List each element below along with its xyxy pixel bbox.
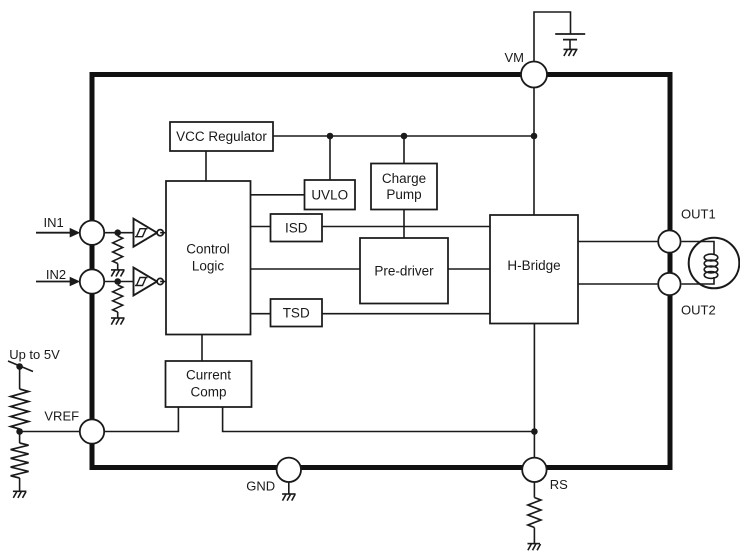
node label VM bbox=[505, 50, 525, 65]
svg-text:OUT2: OUT2 bbox=[681, 303, 716, 318]
wire buffer2 to Control Logic bbox=[160, 281, 166, 283]
ground IN2 pull-down bbox=[111, 318, 125, 325]
svg-text:Control: Control bbox=[186, 241, 230, 256]
block H-Bridge bbox=[490, 215, 578, 324]
motor load bbox=[689, 238, 740, 289]
wire Control Logic to Pre-driver bbox=[251, 268, 361, 270]
junction IN2 node bbox=[114, 278, 121, 285]
wire Current Comp to VREF pin bbox=[104, 407, 178, 432]
pin GND bbox=[277, 458, 301, 482]
svg-text:Pump: Pump bbox=[386, 187, 421, 202]
wire OUT2 to motor bbox=[682, 277, 714, 284]
wire TSD to H-Bridge bbox=[322, 313, 490, 315]
wire GND pin to ground bbox=[288, 482, 290, 494]
svg-text:VCC Regulator: VCC Regulator bbox=[176, 129, 267, 144]
wire VCC bus junction to UVLO bbox=[329, 136, 331, 181]
node label Up to 5V bbox=[9, 347, 60, 362]
wire sense resistor to ground bbox=[533, 528, 535, 544]
wire Current Comp to RS net bbox=[223, 407, 535, 432]
ground divider bbox=[13, 491, 27, 498]
junction VREF tap bbox=[16, 428, 23, 435]
junction RS net bbox=[531, 428, 538, 435]
svg-text:Charge: Charge bbox=[382, 171, 426, 186]
wire H-Bridge down to RS pin bbox=[533, 324, 535, 459]
pin VM bbox=[521, 62, 547, 88]
wire VCC bus junction to Charge Pump bbox=[403, 136, 405, 164]
wire VCC bus from VCC Regulator to VM line bbox=[273, 135, 534, 137]
wire H-Bridge to OUT1 bbox=[578, 241, 657, 243]
schmitt buffer IN2 bbox=[134, 268, 164, 296]
ground RS sense bbox=[528, 544, 541, 551]
pin RS bbox=[522, 458, 546, 482]
wire IN1 pin to buffer bbox=[104, 232, 133, 234]
resistor IN2 pull-down bbox=[113, 285, 123, 318]
junction VCC-ChargePump bbox=[401, 133, 408, 140]
wire IN2 pin to buffer bbox=[104, 281, 133, 283]
wire VM line down to H-Bridge bbox=[533, 87, 535, 215]
pin IN2 bbox=[80, 269, 104, 293]
svg-text:Comp: Comp bbox=[190, 385, 226, 400]
svg-text:UVLO: UVLO bbox=[311, 188, 348, 203]
junction VCC-UVLO bbox=[327, 133, 334, 140]
pin OUT1 bbox=[658, 230, 680, 252]
wire divider tap to VREF pin bbox=[20, 431, 80, 433]
junction VCC-VM line bbox=[531, 133, 538, 140]
ground VM bypass bbox=[564, 49, 578, 56]
svg-text:IN1: IN1 bbox=[44, 215, 64, 230]
block VCC Regulator bbox=[170, 122, 273, 151]
wire VM pin to bypass capacitor bbox=[534, 12, 571, 62]
wire buffer1 to Control Logic bbox=[160, 232, 166, 234]
node label IN2 bbox=[46, 267, 66, 282]
pin IN1 bbox=[80, 221, 104, 245]
pin VREF bbox=[80, 419, 104, 443]
block Pre-driver bbox=[360, 238, 448, 304]
junction IN1 node bbox=[114, 229, 121, 236]
node label VREF bbox=[44, 408, 79, 423]
block Current Comp bbox=[166, 361, 252, 407]
resistor divider lower bbox=[11, 432, 29, 492]
wire H-Bridge to OUT2 bbox=[578, 283, 657, 285]
wire OUT1 to motor bbox=[682, 242, 714, 252]
block Control Logic bbox=[166, 181, 251, 335]
svg-text:Up to 5V: Up to 5V bbox=[9, 347, 60, 362]
block Charge Pump bbox=[371, 164, 437, 210]
wire Control Logic to Current Comp bbox=[201, 335, 203, 362]
capacitor VM bypass bbox=[555, 34, 585, 49]
svg-text:VM: VM bbox=[505, 50, 525, 65]
svg-text:Logic: Logic bbox=[192, 258, 225, 273]
node label OUT1 bbox=[681, 206, 716, 221]
wire ISD to H-Bridge bbox=[322, 226, 490, 228]
ground IN1 pull-down bbox=[111, 270, 125, 277]
svg-text:ISD: ISD bbox=[285, 221, 308, 236]
svg-text:Current: Current bbox=[186, 368, 231, 383]
wire Control Logic to TSD bbox=[251, 313, 271, 315]
wire Charge Pump to Pre-driver bbox=[403, 210, 405, 239]
svg-text:OUT1: OUT1 bbox=[681, 206, 716, 221]
node IN1 input arrow bbox=[36, 228, 80, 238]
wire 5V terminal to divider bbox=[19, 367, 21, 390]
node label OUT2 bbox=[681, 303, 716, 318]
schmitt buffer IN1 bbox=[134, 219, 164, 247]
wire VCC Regulator to Control Logic bbox=[205, 151, 207, 181]
wire Pre-driver to H-Bridge bbox=[448, 268, 490, 270]
svg-text:IN2: IN2 bbox=[46, 267, 66, 282]
svg-text:RS: RS bbox=[550, 477, 568, 492]
resistor divider upper bbox=[11, 389, 29, 432]
pin OUT2 bbox=[658, 273, 680, 295]
node Up-to-5V terminal slash bbox=[8, 361, 33, 372]
svg-text:H-Bridge: H-Bridge bbox=[507, 258, 560, 273]
block ISD bbox=[271, 214, 323, 242]
block TSD bbox=[271, 299, 323, 327]
node IN2 input arrow bbox=[36, 277, 80, 287]
wire RS pin to sense resistor bbox=[533, 482, 535, 498]
node label IN1 bbox=[44, 215, 64, 230]
wire Control Logic to UVLO bbox=[251, 194, 305, 196]
svg-text:GND: GND bbox=[246, 478, 275, 493]
chip boundary box bbox=[92, 75, 670, 468]
svg-text:Pre-driver: Pre-driver bbox=[374, 264, 434, 279]
svg-text:VREF: VREF bbox=[44, 408, 79, 423]
svg-text:TSD: TSD bbox=[283, 306, 310, 321]
ground GND pin bbox=[282, 494, 296, 501]
node label RS bbox=[550, 477, 568, 492]
resistor RS sense bbox=[528, 498, 541, 528]
node label GND bbox=[246, 478, 275, 493]
wire Control Logic to ISD bbox=[251, 226, 271, 228]
resistor IN1 pull-down bbox=[113, 236, 123, 270]
block UVLO bbox=[305, 180, 356, 210]
junction Up-to-5V terminal bbox=[16, 363, 23, 370]
